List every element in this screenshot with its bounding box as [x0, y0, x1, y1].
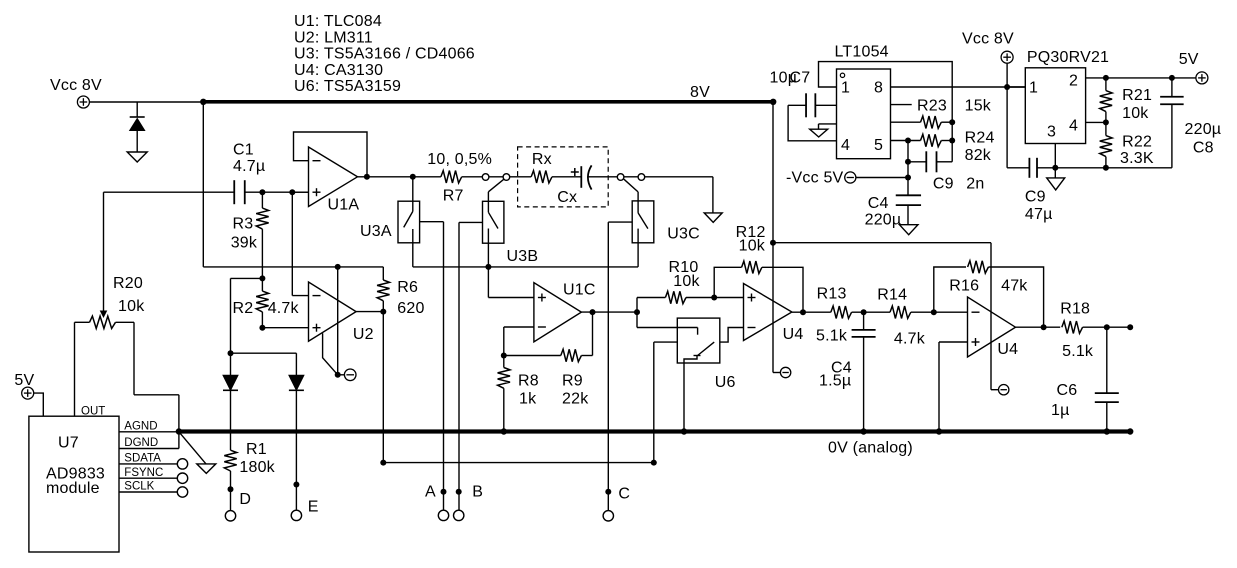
svg-text:1: 1	[841, 80, 850, 97]
svg-text:U1A: U1A	[328, 197, 360, 214]
svg-text:U7: U7	[58, 435, 79, 452]
svg-text:U6: U6	[715, 374, 736, 391]
svg-text:5.1k: 5.1k	[816, 328, 848, 345]
svg-text:R3: R3	[233, 216, 254, 233]
svg-text:R21: R21	[1122, 87, 1152, 104]
svg-text:1k: 1k	[519, 391, 537, 408]
svg-text:47µ: 47µ	[1025, 206, 1053, 223]
svg-text:5: 5	[874, 137, 883, 154]
svg-text:4.7k: 4.7k	[268, 300, 300, 317]
svg-text:R20: R20	[113, 275, 143, 292]
svg-text:U3: TS5A3166 / CD4066: U3: TS5A3166 / CD4066	[294, 46, 475, 63]
svg-text:620: 620	[397, 300, 424, 317]
svg-text:3: 3	[1047, 124, 1056, 141]
svg-text:U3B: U3B	[507, 248, 539, 265]
svg-text:Cx: Cx	[557, 189, 577, 206]
svg-text:FSYNC: FSYNC	[124, 467, 163, 479]
svg-text:D: D	[239, 491, 251, 508]
svg-text:module: module	[46, 480, 100, 497]
svg-text:U3A: U3A	[360, 223, 392, 240]
svg-text:C1: C1	[233, 142, 254, 159]
svg-text:C: C	[618, 486, 630, 503]
svg-text:2: 2	[1069, 73, 1078, 90]
svg-text:4: 4	[1069, 118, 1078, 135]
svg-text:U1C: U1C	[563, 282, 596, 299]
svg-text:R22: R22	[1122, 134, 1152, 151]
svg-text:DGND: DGND	[124, 437, 158, 449]
svg-text:0V (analog): 0V (analog)	[828, 440, 913, 457]
svg-text:1: 1	[1029, 80, 1038, 97]
svg-text:U1: TLC084: U1: TLC084	[294, 13, 382, 30]
svg-text:82k: 82k	[965, 147, 992, 164]
svg-text:R16: R16	[949, 278, 979, 295]
svg-text:R6: R6	[397, 279, 418, 296]
svg-text:1.5µ: 1.5µ	[819, 373, 851, 390]
svg-text:R23: R23	[917, 98, 947, 115]
svg-text:R9: R9	[562, 373, 583, 390]
svg-text:U4: U4	[783, 326, 804, 343]
svg-text:2n: 2n	[966, 176, 984, 193]
svg-text:PQ30RV21: PQ30RV21	[1027, 49, 1109, 66]
svg-text:8: 8	[874, 80, 883, 97]
svg-text:3.3K: 3.3K	[1120, 150, 1154, 167]
svg-text:1µ: 1µ	[1051, 402, 1070, 419]
svg-text:10k: 10k	[1122, 105, 1149, 122]
svg-text:4.7µ: 4.7µ	[233, 158, 265, 175]
svg-text:OUT: OUT	[81, 406, 105, 418]
svg-text:10k: 10k	[118, 298, 145, 315]
svg-text:U4: CA3130: U4: CA3130	[294, 62, 383, 79]
svg-text:LT1054: LT1054	[835, 44, 889, 61]
svg-text:C9: C9	[933, 176, 954, 193]
svg-text:U4: U4	[997, 341, 1018, 358]
svg-text:R2: R2	[233, 300, 254, 317]
svg-text:Vcc 8V: Vcc 8V	[50, 77, 102, 94]
svg-text:10k: 10k	[739, 238, 766, 255]
svg-text:C9: C9	[1025, 189, 1046, 206]
svg-text:R7: R7	[443, 188, 464, 205]
svg-text:5.1k: 5.1k	[1062, 343, 1094, 360]
svg-text:R18: R18	[1060, 301, 1090, 318]
svg-text:220µ: 220µ	[865, 212, 902, 229]
svg-text:220µ: 220µ	[1185, 121, 1222, 138]
svg-text:U2: LM311: U2: LM311	[294, 29, 373, 46]
svg-text:R13: R13	[817, 286, 847, 303]
svg-text:C7: C7	[790, 70, 811, 87]
svg-text:R24: R24	[965, 130, 995, 147]
svg-text:8V: 8V	[690, 84, 710, 101]
svg-text:4: 4	[841, 137, 850, 154]
svg-text:15k: 15k	[965, 98, 992, 115]
svg-text:10, 0,5%: 10, 0,5%	[427, 151, 492, 168]
svg-text:U3C: U3C	[667, 226, 700, 243]
svg-text:A: A	[425, 484, 436, 501]
svg-text:C8: C8	[1193, 140, 1214, 157]
svg-text:4.7k: 4.7k	[894, 331, 926, 348]
svg-text:C6: C6	[1057, 382, 1078, 399]
svg-text:R14: R14	[877, 287, 907, 304]
svg-text:22k: 22k	[562, 391, 589, 408]
svg-text:10k: 10k	[673, 273, 700, 290]
svg-text:R1: R1	[246, 441, 267, 458]
svg-text:E: E	[308, 499, 319, 516]
svg-text:AGND: AGND	[124, 421, 157, 433]
svg-text:Vcc 8V: Vcc 8V	[962, 31, 1014, 48]
svg-text:R8: R8	[518, 373, 539, 390]
svg-text:B: B	[472, 484, 483, 501]
svg-text:-Vcc 5V: -Vcc 5V	[786, 170, 844, 187]
svg-text:Rx: Rx	[532, 151, 552, 168]
svg-text:U2: U2	[353, 326, 374, 343]
svg-text:C4: C4	[868, 195, 889, 212]
svg-text:SDATA: SDATA	[124, 453, 161, 465]
svg-text:5V: 5V	[14, 372, 34, 389]
svg-text:SCLK: SCLK	[124, 481, 154, 493]
svg-text:180k: 180k	[239, 459, 275, 476]
svg-text:5V: 5V	[1179, 51, 1199, 68]
svg-text:47k: 47k	[1001, 278, 1028, 295]
svg-text:U6: TS5A3159: U6: TS5A3159	[294, 78, 401, 95]
svg-text:39k: 39k	[231, 235, 258, 252]
